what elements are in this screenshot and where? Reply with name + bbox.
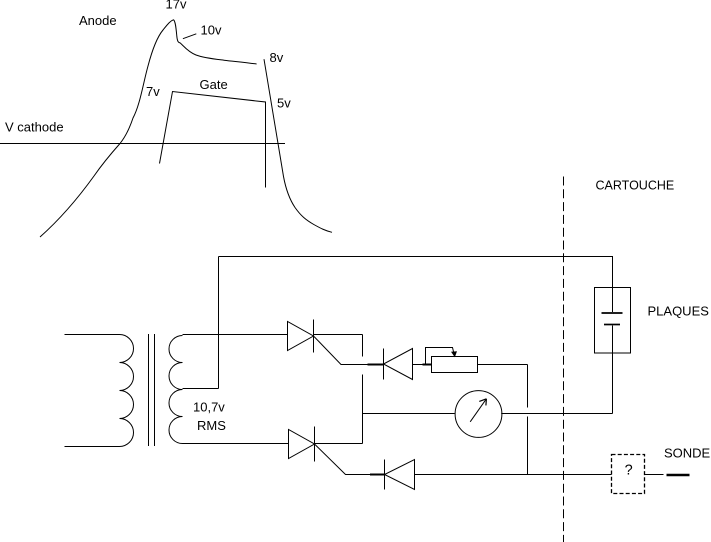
svg-text:SONDE: SONDE (664, 446, 711, 461)
plaques block outline (595, 288, 631, 354)
thyristor SCR2 gate lead (315, 445, 385, 475)
wire plaques bottom drop (612, 353, 614, 414)
wire gate stub thick before D1 bar (368, 364, 384, 366)
plaques capacitor top plate (602, 312, 623, 314)
transformer T1 core (149, 334, 155, 446)
svg-text:Gate: Gate (200, 77, 228, 92)
plaques capacitor bottom plate (604, 324, 620, 326)
meter M1 needle arrowhead (479, 399, 486, 406)
wire node A to meter (363, 413, 455, 415)
transformer T1 primary bottom lead (65, 446, 120, 448)
svg-text:PLAQUES: PLAQUES (648, 304, 710, 319)
wire secondary bottom to SCR2 anode (183, 443, 289, 445)
meter M1 needle (470, 399, 486, 422)
diode D1 cathode bar (383, 349, 385, 380)
diode D2 triangle (385, 460, 415, 490)
transformer T1 secondary winding (169, 336, 183, 444)
probe tip (667, 474, 690, 477)
wire node A vertical upper segment (362, 335, 364, 357)
potentiometer P1 wiper arrowhead (451, 351, 457, 357)
wire center tap horizontal (183, 388, 219, 390)
transformer T1 primary top lead (65, 334, 120, 336)
wire potentiometer to node B (478, 364, 528, 366)
wire top rail to plaques (219, 257, 613, 289)
thyristor SCR1 triangle (288, 322, 314, 351)
svg-text:5v: 5v (277, 96, 291, 111)
wire sonde box to probe tip (645, 474, 664, 476)
thyristor SCR2 cathode bar (314, 427, 316, 462)
svg-text:7v: 7v (146, 84, 160, 99)
wire center tap riser (218, 257, 220, 389)
transformer T1 primary winding (120, 335, 134, 447)
svg-text:RMS: RMS (197, 418, 226, 433)
waveform 10v leader line (183, 34, 196, 39)
wire node B vertical upper segment (527, 365, 529, 408)
diode D2 cathode bar (384, 460, 386, 490)
wire gate stub thick before D2 bar (370, 474, 384, 476)
svg-text:17v: 17v (166, 0, 187, 12)
sonde unknown box (612, 455, 645, 494)
waveform anode curve (rise, peak, dip, decay) (40, 20, 257, 237)
wire meter to plaques bottom (501, 413, 612, 415)
cartouche boundary dashed line (563, 177, 565, 542)
svg-text:8v: 8v (270, 50, 284, 65)
wire stub thick before potentiometer (423, 364, 432, 366)
potentiometer P1 wiper arrow (426, 348, 455, 365)
wire SCR2 cathode to node A (315, 443, 363, 445)
wire D1 anode to potentiometer (413, 364, 432, 366)
wire SCR1 cathode to node A (314, 334, 363, 336)
svg-text:?: ? (625, 462, 633, 478)
waveform anode steep fall after 8v (264, 59, 332, 232)
plaques capacitor stubs (612, 288, 614, 354)
svg-text:10,7v: 10,7v (193, 400, 225, 415)
wire node A vertical lower segment (jump over gate wire) (362, 375, 364, 444)
wire node B vertical lower segment (jump over meter wire) (527, 417, 529, 475)
svg-text:Anode: Anode (79, 13, 117, 28)
svg-text:V cathode: V cathode (5, 120, 64, 135)
svg-text:10v: 10v (201, 23, 222, 38)
meter M1 body (455, 391, 502, 438)
svg-text:CARTOUCHE: CARTOUCHE (596, 178, 675, 192)
thyristor SCR1 gate lead (314, 337, 384, 365)
waveform gate pulse (160, 92, 266, 188)
wire D2 anode to sonde box (415, 474, 612, 476)
diode D1 triangle (384, 349, 413, 380)
thyristor SCR2 triangle (289, 430, 315, 459)
waveform V-cathode axis line (0, 143, 285, 145)
wire secondary top to SCR1 anode (183, 334, 288, 336)
potentiometer P1 body (432, 357, 478, 373)
thyristor SCR1 cathode bar (313, 320, 315, 353)
